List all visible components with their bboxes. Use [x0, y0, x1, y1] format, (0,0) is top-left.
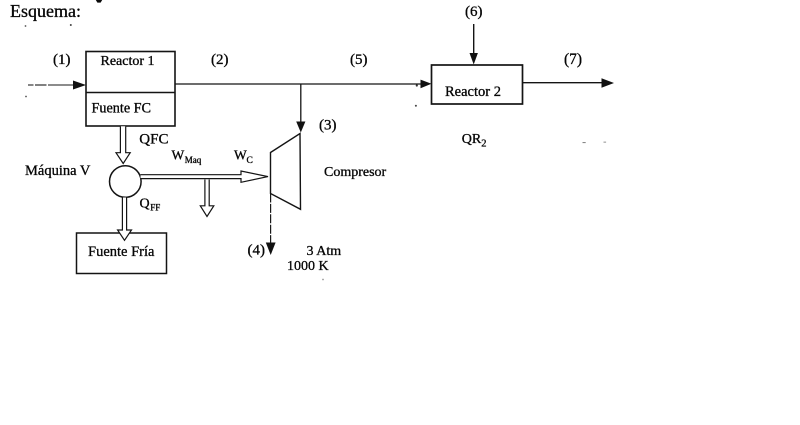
- svg-text:Q: Q: [140, 197, 150, 212]
- svg-text:1000 K: 1000 K: [287, 259, 329, 274]
- svg-text:(2): (2): [211, 52, 229, 68]
- svg-text:2: 2: [481, 139, 486, 150]
- svg-text:Maq: Maq: [185, 155, 202, 165]
- svg-text:Máquina V: Máquina V: [25, 163, 91, 179]
- svg-text:FF: FF: [150, 203, 160, 213]
- svg-text:(7): (7): [564, 51, 582, 68]
- svg-text:Esquema:: Esquema:: [10, 1, 81, 21]
- svg-text:(3): (3): [319, 118, 337, 134]
- svg-text:3 Atm: 3 Atm: [307, 244, 342, 259]
- svg-text:QFC: QFC: [139, 132, 168, 148]
- svg-text:Reactor 2: Reactor 2: [445, 84, 501, 100]
- svg-text:QR: QR: [462, 132, 482, 147]
- svg-text:Reactor 1: Reactor 1: [101, 54, 155, 69]
- svg-text:W: W: [172, 147, 185, 162]
- svg-text:(4): (4): [248, 243, 266, 259]
- svg-text:(6): (6): [465, 4, 483, 20]
- svg-text:Fuente Fría: Fuente Fría: [88, 244, 155, 260]
- svg-text:(5): (5): [350, 52, 368, 68]
- svg-text:Compresor: Compresor: [324, 165, 387, 180]
- svg-text:(1): (1): [53, 52, 71, 68]
- svg-text:W: W: [234, 147, 247, 162]
- svg-text:C: C: [247, 156, 253, 166]
- svg-text:Fuente FC: Fuente FC: [92, 101, 152, 117]
